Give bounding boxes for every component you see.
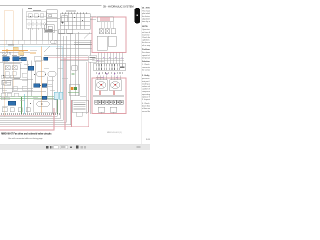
U2 inner rect [62, 16, 68, 22]
label box text 2 [90, 58, 95, 61]
dark specks [3, 16, 83, 105]
M1 frame [96, 80, 108, 91]
svg-text:reading with the table: reading with the table [142, 82, 150, 85]
wire orange top [4, 10, 13, 12]
purple dot m2 [116, 77, 117, 78]
svg-text:a flow meter kit and: a flow meter kit and [142, 107, 150, 110]
box B smudge [45, 30, 53, 32]
purple pin dot 3 [114, 73, 115, 74]
header rule [0, 4, 102, 7]
label small A [33, 9, 41, 12]
TB1 t4 [106, 100, 109, 104]
V1 mid line [26, 19, 46, 21]
TB1 t2 [98, 100, 101, 104]
wire conn to motors 2 [102, 76, 104, 80]
J1 pins row2 [96, 67, 120, 70]
page separator line [140, 6, 142, 144]
M1 ellipse [97, 81, 106, 88]
wire v47 [46, 77, 48, 100]
U2 grid v4 [75, 14, 77, 30]
solenoid valve SV7 [8, 101, 16, 105]
bottom bus pink lines [0, 56, 92, 130]
S2 stub [112, 112, 114, 114]
wire bus b3 [0, 110, 63, 120]
zoom field text [61, 147, 65, 148]
ladder ticks top [6, 40, 54, 44]
green mark [72, 74, 75, 75]
svg-text:Solution:: Solution: [142, 60, 150, 63]
right mid cluster 2 [69, 85, 80, 96]
svg-text:NOTE:: NOTE: [142, 26, 148, 28]
svg-text:3-26: 3-26 [146, 139, 150, 141]
pump ellipse E1 [36, 71, 46, 77]
orange pilot h [2, 50, 28, 52]
wire cyan vertical 2 [62, 47, 64, 92]
wire bus b2 [0, 112, 61, 118]
small box below list [76, 112, 82, 116]
relief valve RV1 [97, 17, 113, 22]
svg-text:confirm that the pump: confirm that the pump [142, 88, 150, 91]
text marks mid [80, 95, 86, 98]
wire ladder h1 [92, 57, 124, 59]
right list box [72, 100, 88, 112]
wire orange vertical left [3, 11, 5, 117]
main grey lines [0, 9, 92, 115]
X symbol 1 [5, 66, 10, 70]
solenoid valve SV9 [42, 96, 47, 99]
wire ladder h2 [92, 60, 124, 62]
valve block V1 outline [26, 12, 46, 29]
small box row 4 [26, 108, 30, 112]
list lines [74, 102, 86, 109]
label box FAN [89, 56, 97, 63]
green line under marks [68, 91, 79, 93]
scroll pill button [134, 8, 140, 24]
green mark 2 [74, 87, 77, 90]
small box row 2 [10, 108, 14, 112]
solenoid valve SV1 [3, 57, 10, 61]
wire h88 [0, 87, 33, 89]
terminal dash row [1, 113, 60, 115]
VB1 inner 1 [5, 66, 10, 70]
TB1 t3 [102, 100, 105, 104]
wire v90 [90, 40, 92, 114]
wire left drop [21, 9, 23, 41]
wire center drop 3 [62, 36, 64, 110]
svg-text:39 - HYDRAULIC SYSTEM: 39 - HYDRAULIC SYSTEM [103, 4, 134, 8]
wire v86 [85, 62, 87, 114]
wire h44 [0, 43, 92, 45]
wire v35 [34, 61, 36, 84]
M2 ellipse [111, 81, 120, 88]
solenoid valve SV8 [44, 57, 48, 60]
M1 red stub [99, 91, 101, 96]
svg-text:test port GP. Compare: test port GP. Compare [142, 80, 150, 83]
toolbar zoom field [60, 146, 67, 149]
pump circle P5 [43, 23, 45, 25]
wire pink bus 2 [0, 108, 54, 130]
wire h48 [56, 47, 92, 49]
wire conn to motors 6 [105, 76, 107, 80]
TB1 t7 [117, 100, 120, 104]
U2 bottom row box2 [67, 29, 73, 33]
left stack box [2, 80, 12, 92]
valve body VB1 [3, 64, 20, 78]
svg-text:MMO-09-07 Fan drive and solen: MMO-09-07 Fan drive and solenoid valve c… [1, 132, 52, 135]
wire green vertical [21, 97, 23, 114]
TB1 t6 [113, 100, 116, 104]
left stack inner [4, 82, 11, 85]
pump circle P4 [40, 23, 42, 25]
tank line (cyan) [0, 47, 63, 114]
wire bus b1 [0, 112, 57, 116]
wire green vertical 2 [57, 99, 59, 114]
M2 red mark [115, 84, 116, 85]
svg-text:Fan does not reach full: Fan does not reach full [142, 51, 150, 54]
S1 stub [100, 112, 102, 114]
wire mid h60 [60, 60, 88, 62]
U2 grid v6 [83, 14, 85, 30]
svg-text:3. Inspect fan blades: 3. Inspect fan blades [142, 98, 150, 101]
E3 box [34, 100, 57, 113]
toolbar top border [0, 143, 150, 146]
toolbar page field [54, 146, 59, 149]
wire drop d1 [97, 53, 99, 65]
wire cyan vertical [24, 94, 26, 114]
wire orange vertical 2 [12, 11, 14, 88]
M2 red stub [113, 91, 115, 96]
wire center drop 4 [65, 36, 67, 110]
TB1 t5 [109, 100, 112, 104]
svg-text:compensator is in its: compensator is in its [142, 90, 150, 93]
svg-text:operating range. Then: operating range. Then [142, 93, 150, 96]
wire bus top [0, 39, 92, 41]
svg-text:oil as required.: oil as required. [142, 45, 150, 47]
U2 grid h3 [60, 24, 90, 26]
svg-text:39 - HYDRAULIC SYSTEM: 39 - HYDRAULIC SYSTEM [142, 6, 150, 9]
cyan cooler box 1 [54, 92, 58, 99]
wire motors h [93, 95, 124, 97]
junction dot [62, 22, 64, 24]
wire cyan main horizontal [0, 46, 63, 48]
svg-text:the factory and must not be: the factory and must not be [142, 15, 150, 18]
U2 grid h1 [60, 17, 90, 19]
U2 top ticks [62, 12, 87, 14]
X symbol 2 [12, 66, 17, 70]
purple dot m1 [102, 77, 103, 78]
orange arrow [6, 50, 8, 52]
fan motor M2 [110, 80, 122, 91]
return lines (green) [0, 97, 58, 114]
purple node 4 [97, 60, 98, 61]
X mark 2 [106, 29, 110, 33]
wire drop x70 [70, 34, 72, 114]
box B inner mark 2 [49, 15, 52, 17]
pump ellipse E2 [48, 71, 56, 77]
TB1 t8 [120, 100, 123, 104]
wire pink bus 0 [0, 114, 52, 116]
V1 inner box 2 [34, 14, 38, 18]
wire center drop 2 [60, 30, 62, 114]
M2 frame [110, 80, 122, 91]
svg-text:speed in high ambient: speed in high ambient [142, 54, 150, 57]
orange mark [71, 87, 74, 90]
toolbar slash [51, 146, 54, 148]
wire drop from A [29, 28, 31, 40]
leader diagonal 2 [44, 46, 50, 52]
svg-text:cylinders fully retracted and: cylinders fully retracted and [142, 39, 150, 42]
U2 grid v5 [79, 14, 81, 30]
wire conn to motors 8 [119, 76, 121, 80]
svg-text:Problem:: Problem: [142, 49, 150, 51]
label box text 1 [90, 56, 96, 59]
wire B down 1 [47, 33, 49, 41]
purple node 3 [115, 57, 116, 58]
wire mid h56 [44, 55, 88, 57]
pill glyph [137, 15, 138, 17]
solenoid valve SV3 [21, 57, 27, 61]
control valve U2 outline [60, 14, 90, 30]
yellow block 2 [19, 52, 24, 56]
U2 grid h2 [60, 21, 90, 23]
svg-text:pressure with gauge at: pressure with gauge at [142, 77, 150, 80]
wire conn to motors 4 [116, 76, 118, 80]
fan motor M1 [96, 80, 108, 91]
RV1 pink tint [100, 18, 110, 21]
small box row 3 [18, 108, 22, 112]
U2 grid v1 [63, 14, 65, 30]
svg-text:Use with connector tables on f: Use with connector tables on facing page [8, 137, 44, 140]
wire conn to motors 1 [99, 76, 101, 80]
TB1 inner dashes [95, 102, 122, 104]
M2 cross [112, 82, 119, 88]
J1 pins row1 [96, 64, 123, 67]
V1 inner box 1 [28, 14, 32, 18]
TB1 t1 [95, 100, 98, 104]
box B inner mark [48, 26, 52, 29]
pilot line loop (orange) [4, 11, 41, 117]
wire h mid right [74, 42, 92, 44]
V1 verticals [31, 20, 41, 29]
wire drop d3 [103, 53, 105, 65]
wire v31 [30, 61, 32, 97]
label 1 [28, 8, 32, 9]
right mid small cluster [72, 66, 78, 71]
U2 bottom row box1 [59, 29, 65, 33]
M1 cross [98, 82, 105, 88]
wire h68 [20, 67, 33, 69]
wire conn to motors 3 [113, 76, 115, 80]
cylinder C2 [108, 36, 116, 46]
wire bus b4 [0, 110, 66, 122]
wire U2 bottom edge [58, 33, 92, 35]
toolbar icon light1 [80, 146, 82, 149]
mid grey box [34, 57, 41, 62]
wire U2 exit 2 [90, 19, 96, 21]
RV1 symbol boxes [99, 29, 104, 34]
pump circle P2 [32, 23, 34, 25]
svg-text:2. Verify pump margin: 2. Verify pump margin [142, 75, 150, 77]
svg-text:temperature conditions.: temperature conditions. [142, 56, 150, 59]
svg-text:MMO-09-001 (1): MMO-09-001 (1) [107, 132, 122, 134]
box B outline [47, 10, 58, 31]
solenoid valve SV4 [28, 66, 34, 70]
label above U2 [66, 10, 76, 13]
toolbar page num [50, 146, 51, 149]
left detail boxes row1 [1, 72, 27, 97]
wire conn to motors 7 [110, 76, 112, 80]
small ellipse mid [50, 40, 57, 44]
solenoid valve SV6 [42, 84, 47, 88]
wire orange short [8, 50, 24, 52]
toolbar icon minus [70, 147, 72, 148]
pump circle P3 [36, 23, 38, 25]
solenoid S2 [110, 107, 117, 112]
pump group box (pink) [92, 17, 126, 53]
svg-text:record the readings.: record the readings. [142, 110, 150, 113]
small symbols row [3, 52, 12, 54]
svg-text:values shown above to: values shown above to [142, 85, 150, 88]
orange dash mid [30, 52, 36, 55]
wire v22 [21, 44, 23, 57]
leader diagonal [84, 33, 90, 39]
left row extra boxes [1, 75, 14, 100]
wire v52 [51, 77, 53, 115]
toolbar icon light2 [84, 146, 86, 149]
wire h80 [12, 79, 33, 81]
wire h92 [12, 91, 46, 93]
X mark 1 [100, 29, 104, 33]
U2 grid v3 [71, 14, 73, 30]
V1 inner box 3 [40, 14, 44, 18]
wire drop d9 [121, 53, 123, 65]
svg-text:Check the oil level with all: Check the oil level with all [142, 36, 150, 39]
RV1 hatch [101, 22, 113, 29]
svg-text:for corrosion damage.: for corrosion damage. [142, 69, 150, 71]
right page text column [142, 6, 167, 141]
bottom bus lines grey [0, 110, 71, 125]
cyan cooler box 2 [59, 92, 63, 99]
wire drop d7 [115, 53, 117, 65]
wire conn to motors 5 [96, 76, 98, 80]
yellow accumulator block [13, 47, 18, 51]
wire pink riser [71, 100, 73, 127]
connector strip J1 [94, 63, 126, 71]
wire h63 [0, 62, 22, 64]
motor ellipse E3 [37, 101, 50, 107]
cylinder C1 [97, 36, 107, 50]
purple node 5 [121, 57, 122, 58]
purple pin dot 1 [98, 73, 99, 74]
wire drop x75 [75, 34, 77, 96]
wire drop from A2 [35, 28, 37, 40]
svg-text:the fan motor stopped. Add: the fan motor stopped. Add [142, 41, 150, 44]
U2 grid v2 [67, 14, 69, 30]
wire pink vertical x65 [64, 58, 66, 130]
wire center drop 1 [56, 30, 58, 114]
pump circle P1 [28, 23, 30, 25]
wire h mid right2 [74, 44, 92, 46]
svg-text:air from the lines before the: air from the lines before the [142, 31, 150, 34]
svg-text:replace the cartridge.: replace the cartridge. [142, 95, 150, 98]
wire h52 [0, 51, 30, 53]
wire drop d8 [118, 53, 120, 65]
small box row 1 [2, 108, 7, 112]
wire link clusters [47, 17, 60, 19]
wire drop from A3 [41, 28, 43, 40]
wire right drop [77, 32, 79, 96]
svg-text:drain flow rate with: drain flow rate with [142, 105, 150, 108]
wire drop d2 [100, 53, 102, 65]
box B dividers [47, 14, 58, 22]
valve V3 [105, 29, 110, 34]
svg-text:time by service personnel.: time by service personnel. [142, 20, 150, 23]
valve V4 [111, 29, 116, 34]
drop lines from box1 to connector [98, 53, 122, 65]
svg-text:4. Check motor case: 4. Check motor case [142, 102, 150, 105]
wire pink mid 1 [44, 57, 92, 59]
svg-text:Operate each circuit to purge: Operate each circuit to purge [142, 28, 150, 31]
svg-text:machine is returned to duty.: machine is returned to duty. [142, 33, 150, 36]
svg-text:pilot relief valves are set at: pilot relief valves are set at [142, 12, 150, 15]
purple node 2 [109, 57, 110, 58]
wire U2 exit 1 [90, 16, 96, 18]
VB1 inner 2 [12, 66, 17, 70]
wire bus b5 [0, 112, 71, 125]
toolbar right mark [137, 146, 141, 148]
toolbar bar [0, 144, 150, 150]
wire pink bus 1 [0, 56, 89, 127]
J1 lower ticks [97, 72, 124, 74]
V1 bottom ticks [28, 28, 44, 30]
wire drop d4 [106, 53, 108, 65]
tiny label smudges [2, 45, 125, 107]
wire green horizontal 1 [0, 96, 57, 98]
solenoid S1 [98, 107, 105, 112]
M1 red mark [101, 84, 102, 85]
solenoid valve SV5 [34, 84, 40, 88]
V1 upper line [26, 16, 46, 18]
svg-text:adjusted in the field at any: adjusted in the field at any [142, 17, 150, 20]
box B bottom cluster [45, 25, 55, 33]
purple pin dot 2 [106, 73, 107, 74]
svg-text:The main relief valve and the: The main relief valve and the [142, 10, 150, 13]
toolbar icon grid [46, 146, 48, 149]
wire drop d5 [109, 53, 111, 65]
wire B down 2 [51, 33, 53, 41]
svg-text:connector and harness: connector and harness [142, 66, 150, 69]
wire green horizontal 2 [0, 98, 57, 100]
motor group box (pink) [92, 78, 126, 114]
wire drop d6 [112, 53, 114, 65]
terminal strip TB1 [95, 100, 124, 104]
toolbar icon dark [76, 146, 79, 149]
solenoid valve SV2 [13, 57, 20, 61]
wire orange mid vertical [41, 46, 43, 113]
wire pink mid 2 [60, 58, 92, 60]
wire v27 [26, 61, 28, 115]
purple node 1 [103, 57, 104, 58]
